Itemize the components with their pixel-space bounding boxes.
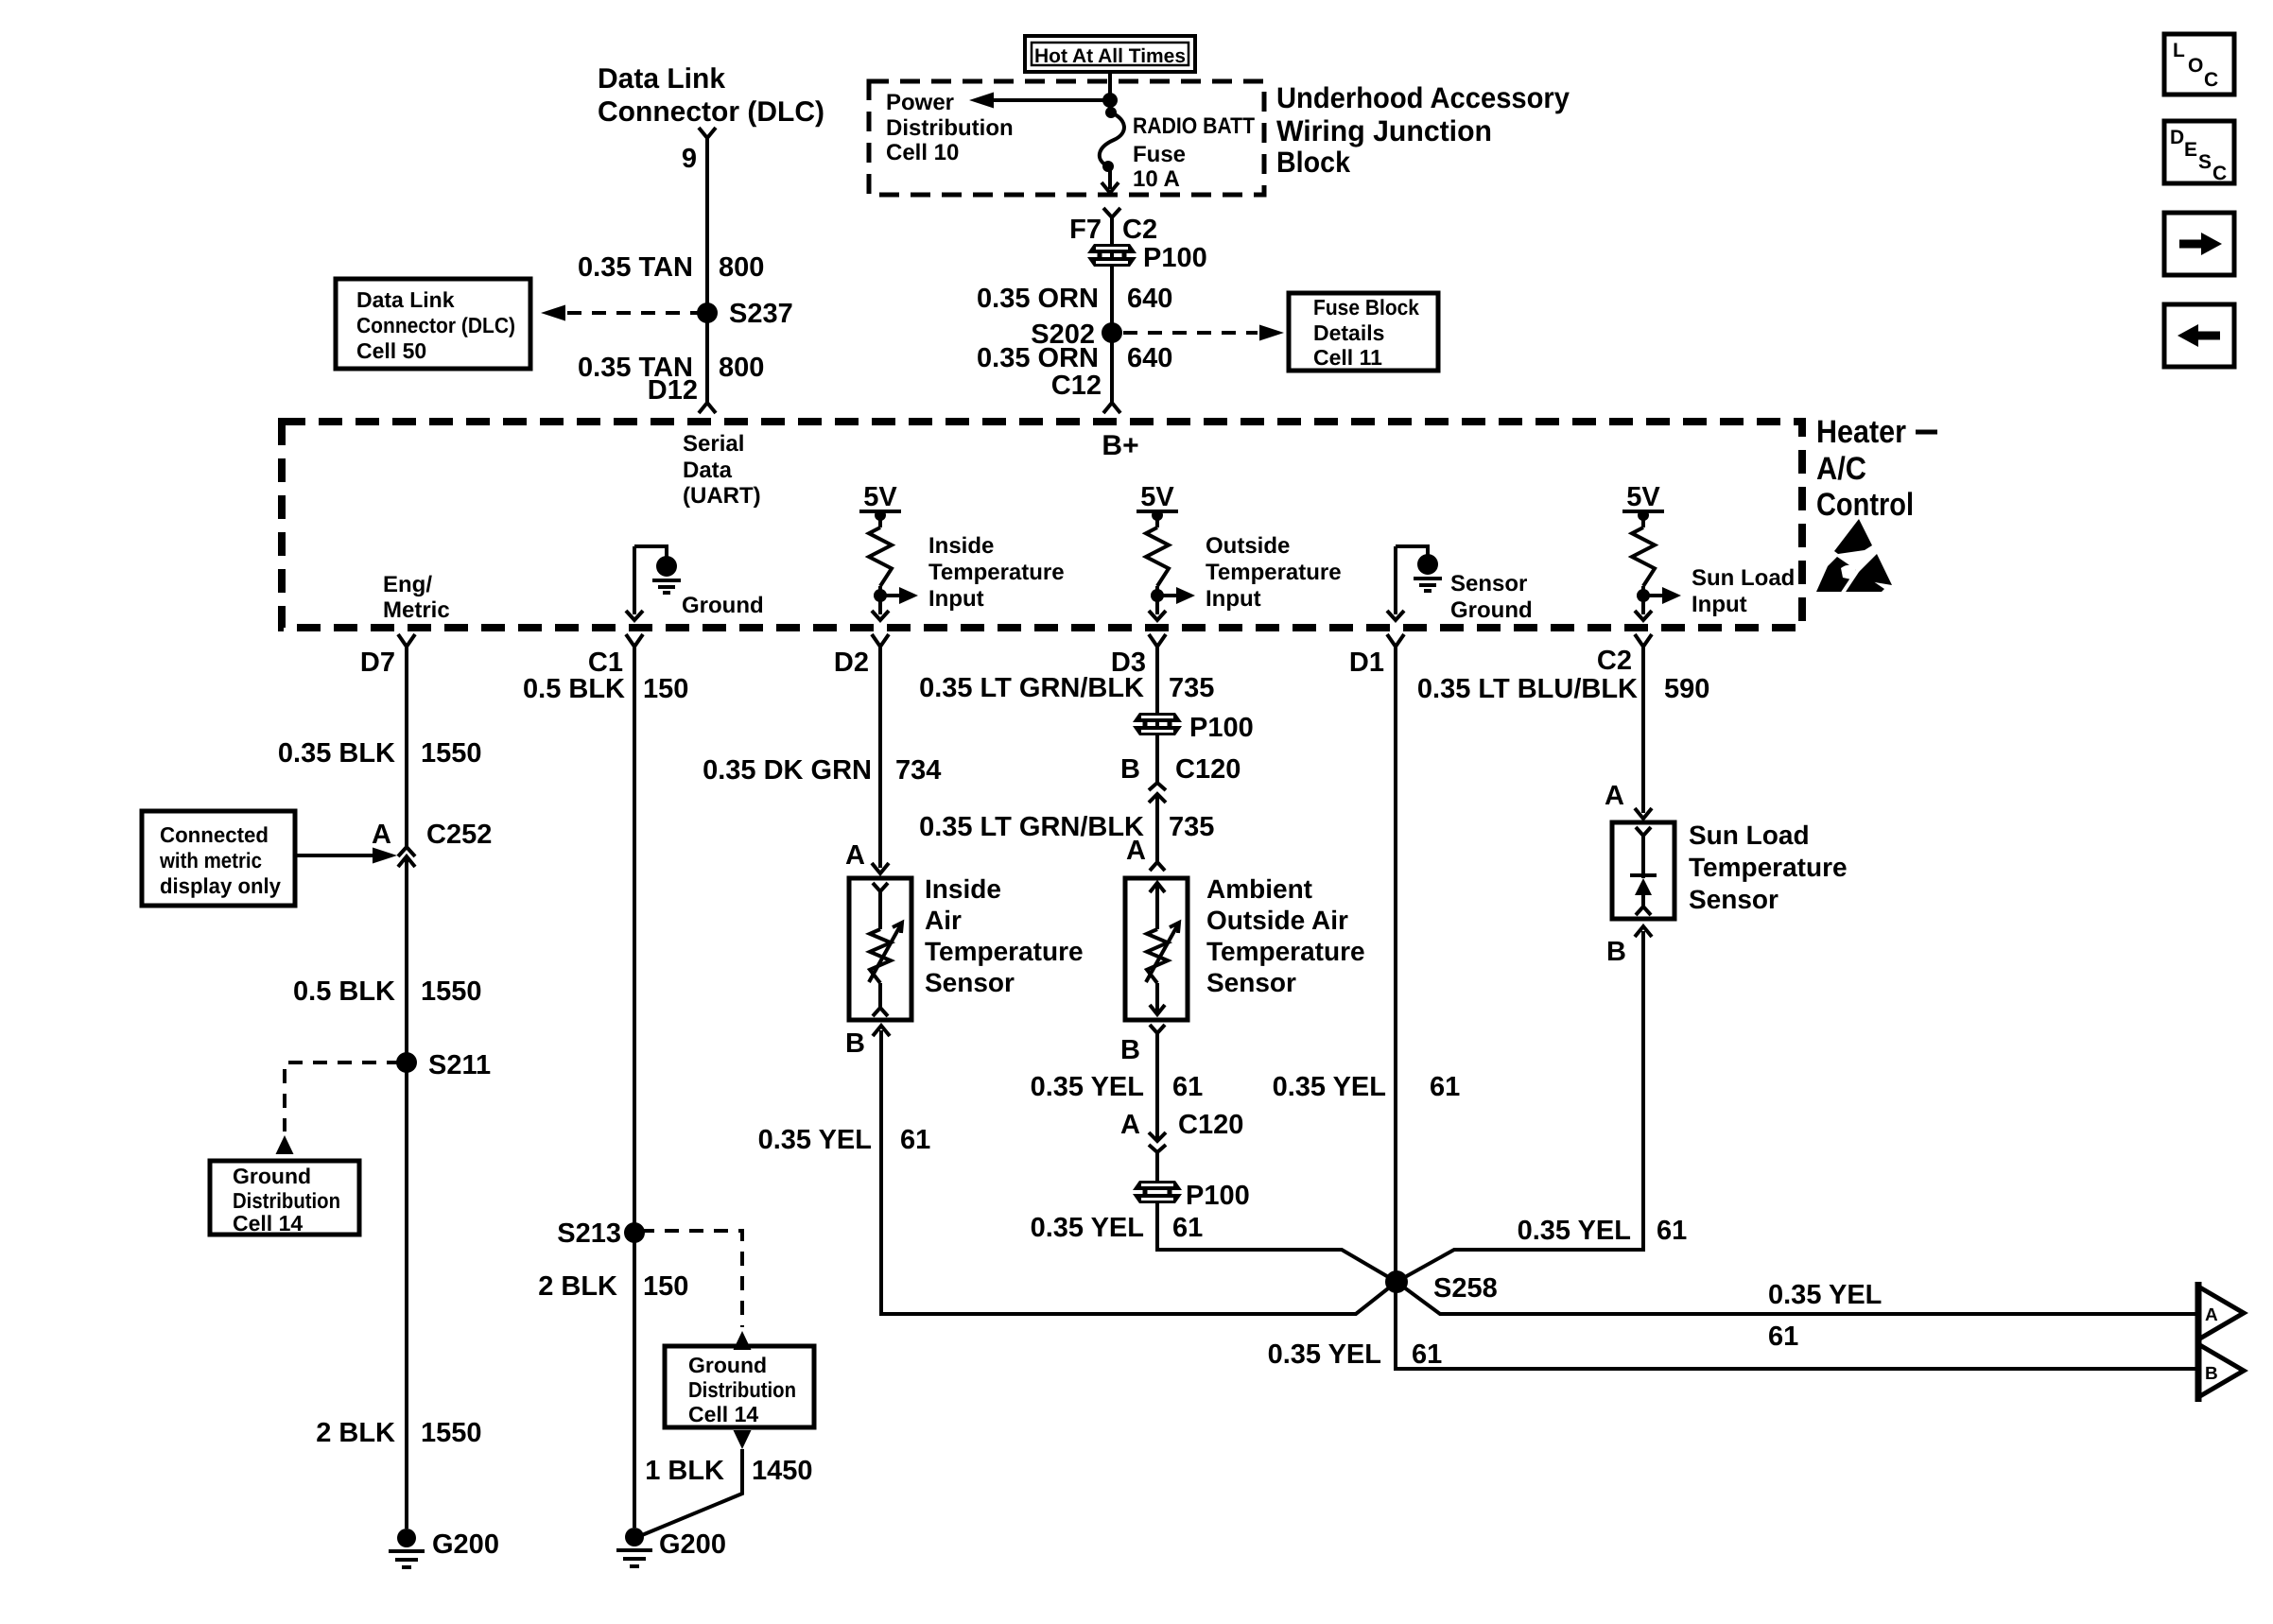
svg-text:Ground: Ground bbox=[233, 1164, 311, 1188]
wire C252 to S211 to G200 bbox=[405, 856, 408, 1529]
svg-text:0.35 TAN: 0.35 TAN bbox=[578, 252, 693, 283]
label 0.35 TAN 800 lower bbox=[578, 353, 764, 383]
svg-text:Temperature: Temperature bbox=[1689, 853, 1848, 882]
svg-text:0.35 LT BLU/BLK: 0.35 LT BLU/BLK bbox=[1417, 674, 1638, 704]
svg-text:0.35 LT GRN/BLK: 0.35 LT GRN/BLK bbox=[919, 812, 1144, 842]
svg-text:0.35 YEL: 0.35 YEL bbox=[1768, 1280, 1882, 1310]
label 0.5 BLK 150 bbox=[523, 674, 688, 704]
dashed reference arrow to Fuse Block Details bbox=[1123, 325, 1284, 341]
arrow outside temperature input bbox=[1157, 587, 1195, 604]
pin A inside sensor bbox=[845, 840, 865, 871]
sensor box Sun Load Temperature Sensor bbox=[1612, 822, 1674, 919]
svg-text:B: B bbox=[1606, 937, 1626, 967]
svg-text:B: B bbox=[845, 1028, 865, 1059]
5V supply at x=1224 bbox=[1136, 482, 1178, 521]
svg-text:(UART): (UART) bbox=[683, 483, 761, 509]
svg-text:2 BLK: 2 BLK bbox=[538, 1271, 617, 1302]
svg-text:B+: B+ bbox=[1102, 430, 1138, 461]
svg-text:5V: 5V bbox=[1140, 482, 1174, 512]
5V supply at x=931 bbox=[859, 482, 901, 521]
svg-text:G200: G200 bbox=[432, 1529, 499, 1560]
ESD sensitivity symbol bbox=[1816, 519, 1892, 593]
svg-text:D2: D2 bbox=[834, 648, 869, 678]
pin D2 bbox=[834, 634, 889, 678]
dashed reference S211 to ground distribution bbox=[285, 1063, 401, 1132]
svg-text:Temperature: Temperature bbox=[925, 937, 1084, 966]
dashed reference S213 to ground distribution bbox=[640, 1231, 742, 1327]
label Inside Temperature Input bbox=[928, 533, 1065, 612]
label 0.35 YEL 61 D1 mid bbox=[1273, 1072, 1461, 1102]
label RADIO BATT Fuse 10 A bbox=[1133, 113, 1255, 192]
svg-text:P100: P100 bbox=[1189, 713, 1254, 743]
connector C252 inline bbox=[398, 847, 415, 867]
svg-text:Temperature: Temperature bbox=[928, 560, 1065, 585]
label 0.35 YEL 61 inside bbox=[758, 1125, 931, 1155]
svg-text:C: C bbox=[2212, 163, 2227, 184]
svg-text:display only: display only bbox=[160, 873, 281, 898]
wire C2 to sun load sensor bbox=[1635, 647, 1652, 819]
node resistor bottom x=1224 bbox=[1151, 586, 1164, 602]
splice S211 bbox=[396, 1050, 491, 1080]
label 0.35 TAN 800 upper bbox=[578, 252, 764, 283]
svg-text:5V: 5V bbox=[1626, 482, 1660, 512]
svg-text:P100: P100 bbox=[1186, 1181, 1250, 1211]
svg-text:10 A: 10 A bbox=[1133, 166, 1180, 192]
svg-text:D1: D1 bbox=[1349, 648, 1384, 678]
arrowhead into ground distribution cell 14 right bbox=[734, 1331, 752, 1350]
svg-text:C12: C12 bbox=[1051, 371, 1102, 401]
svg-text:Inside: Inside bbox=[928, 533, 994, 559]
svg-text:C2: C2 bbox=[1597, 646, 1632, 676]
svg-text:Heater: Heater bbox=[1816, 414, 1906, 450]
svg-text:0.35 YEL: 0.35 YEL bbox=[1518, 1216, 1631, 1246]
label 0.35 YEL 61 ambient bbox=[1031, 1072, 1204, 1102]
node resistor bottom x=1738 bbox=[1637, 586, 1650, 602]
node power junction bbox=[1102, 93, 1118, 108]
svg-text:P100: P100 bbox=[1143, 243, 1207, 273]
svg-text:1 BLK: 1 BLK bbox=[645, 1456, 724, 1486]
wire sensor ground to pin D1 bbox=[1387, 546, 1404, 620]
label Sun Load Input bbox=[1692, 565, 1795, 617]
svg-text:Hot At All Times: Hot At All Times bbox=[1034, 45, 1186, 67]
grommet P100 middle bbox=[1133, 713, 1254, 743]
svg-text:Distribution: Distribution bbox=[233, 1188, 340, 1213]
svg-text:Sensor: Sensor bbox=[925, 968, 1015, 997]
svg-text:Serial: Serial bbox=[683, 431, 744, 457]
svg-text:Cell 11: Cell 11 bbox=[1313, 345, 1382, 370]
svg-text:Input: Input bbox=[928, 586, 984, 612]
arrow to Power Distribution bbox=[969, 93, 1106, 109]
svg-text:Control: Control bbox=[1816, 487, 1914, 523]
svg-text:S213: S213 bbox=[557, 1218, 621, 1249]
icon LOC bbox=[2164, 34, 2234, 95]
svg-text:0.35 YEL: 0.35 YEL bbox=[1268, 1339, 1381, 1370]
svg-text:0.35 ORN: 0.35 ORN bbox=[977, 284, 1099, 314]
svg-text:0.35 BLK: 0.35 BLK bbox=[278, 738, 395, 769]
arrow inside temperature input bbox=[880, 587, 918, 604]
wire ground distribution to G200 right bbox=[642, 1449, 742, 1535]
connector C120 upper bbox=[1149, 783, 1166, 803]
node resistor bottom x=931 bbox=[874, 586, 887, 602]
svg-text:5V: 5V bbox=[863, 482, 897, 512]
label D2 wire 0.35 DK GRN 734 bbox=[703, 755, 941, 786]
svg-text:640: 640 bbox=[1127, 343, 1172, 373]
label 0.35 YEL 61 output A bbox=[1768, 1280, 1882, 1352]
box Fuse Block Details Cell 11 bbox=[1289, 293, 1438, 371]
svg-text:D7: D7 bbox=[360, 648, 395, 678]
svg-text:Fuse: Fuse bbox=[1133, 142, 1186, 167]
label A C252 bbox=[372, 820, 492, 850]
svg-text:0.35 YEL: 0.35 YEL bbox=[1273, 1072, 1386, 1102]
ambient sensor thermistor bbox=[1146, 923, 1179, 983]
svg-text:Underhood Accessory: Underhood Accessory bbox=[1276, 81, 1570, 114]
grommet P100 top bbox=[1087, 243, 1207, 273]
label 2 BLK 150 bbox=[538, 1271, 688, 1302]
pin D3 bbox=[1111, 634, 1166, 678]
svg-text:61: 61 bbox=[1430, 1072, 1460, 1102]
arrowhead out of ground distribution cell 14 right bbox=[734, 1430, 752, 1449]
label 0.35 LT BLU/BLK 590 bbox=[1417, 674, 1709, 704]
fuse RADIO BATT 10 A bbox=[1100, 107, 1124, 193]
pin 9 connector bbox=[699, 128, 716, 138]
svg-text:S: S bbox=[2198, 151, 2212, 173]
svg-text:0.35 YEL: 0.35 YEL bbox=[1031, 1072, 1144, 1102]
net label B+ bbox=[1102, 430, 1138, 461]
svg-text:61: 61 bbox=[1172, 1213, 1203, 1243]
label A C120 lower bbox=[1120, 1110, 1243, 1140]
icon DESC bbox=[2164, 121, 2234, 184]
output arrow A bbox=[2198, 1282, 2244, 1344]
svg-text:1450: 1450 bbox=[752, 1456, 813, 1486]
internal sensor ground symbol near D1 bbox=[1396, 546, 1442, 591]
svg-text:0.5 BLK: 0.5 BLK bbox=[523, 674, 625, 704]
svg-text:0.5 BLK: 0.5 BLK bbox=[293, 976, 395, 1007]
svg-text:S237: S237 bbox=[729, 299, 793, 329]
svg-text:C120: C120 bbox=[1178, 1110, 1243, 1140]
wire ambient B to C120 lower bbox=[1155, 1033, 1159, 1141]
svg-text:Sun Load: Sun Load bbox=[1689, 821, 1810, 850]
pin D12 label bbox=[648, 375, 698, 406]
ground G200 left bbox=[389, 1529, 499, 1567]
svg-text:B: B bbox=[1120, 754, 1140, 785]
svg-text:Sun Load: Sun Load bbox=[1692, 565, 1795, 591]
wire D1 through S258 to output B bbox=[1396, 647, 2198, 1369]
label B C120 upper bbox=[1120, 754, 1241, 785]
wire D2 to inside sensor bbox=[872, 647, 889, 873]
resistor at x=1738 bbox=[1632, 515, 1655, 586]
arrow sun load input bbox=[1643, 587, 1681, 604]
pin C1 bbox=[588, 634, 643, 678]
svg-text:Data: Data bbox=[683, 458, 733, 483]
title Heater A/C Control bbox=[1816, 414, 1937, 523]
pin A sun load sensor bbox=[1605, 781, 1624, 811]
svg-text:1550: 1550 bbox=[421, 738, 482, 769]
svg-text:A/C: A/C bbox=[1816, 451, 1866, 487]
svg-text:Sensor: Sensor bbox=[1689, 885, 1778, 914]
pin B ambient sensor bbox=[1120, 1025, 1165, 1065]
label Serial Data (UART) bbox=[683, 431, 761, 509]
pin A ambient sensor bbox=[1126, 836, 1165, 871]
label Ground bbox=[682, 593, 764, 618]
svg-text:Fuse Block: Fuse Block bbox=[1313, 295, 1419, 320]
pin F7 C2 connector bbox=[1103, 208, 1120, 217]
wire resistor to pin x=931 bbox=[872, 596, 889, 620]
splice S202 bbox=[1031, 320, 1122, 350]
splice S237 bbox=[697, 299, 793, 329]
svg-text:Metric: Metric bbox=[383, 597, 450, 623]
label 0.5 BLK 1550 bbox=[293, 976, 482, 1007]
label 1 BLK 1450 bbox=[645, 1456, 812, 1486]
connector C120 lower bbox=[1149, 1132, 1166, 1152]
svg-text:Distribution: Distribution bbox=[688, 1377, 796, 1402]
svg-text:L: L bbox=[2173, 40, 2185, 61]
wire DLC serial data vertical bbox=[705, 138, 709, 403]
ground G200 right bbox=[616, 1528, 726, 1566]
svg-text:9: 9 bbox=[682, 144, 697, 174]
wire fuse output to C12 bbox=[1110, 217, 1114, 403]
svg-text:150: 150 bbox=[643, 1271, 688, 1302]
svg-text:2 BLK: 2 BLK bbox=[316, 1418, 395, 1448]
box Ground Distribution Cell 14 left bbox=[210, 1161, 359, 1235]
svg-text:G200: G200 bbox=[659, 1529, 726, 1560]
svg-text:Ground: Ground bbox=[1450, 597, 1533, 623]
wire C1 to G200 bbox=[633, 647, 636, 1528]
svg-text:F7: F7 bbox=[1069, 215, 1102, 245]
svg-text:C252: C252 bbox=[426, 820, 492, 850]
svg-text:Temperature: Temperature bbox=[1206, 560, 1342, 585]
svg-text:61: 61 bbox=[1412, 1339, 1442, 1370]
svg-text:Wiring Junction: Wiring Junction bbox=[1276, 114, 1492, 147]
label Power Distribution Cell 10 bbox=[886, 90, 1014, 165]
svg-text:0.35 LT GRN/BLK: 0.35 LT GRN/BLK bbox=[919, 673, 1144, 703]
svg-text:0.35 DK GRN: 0.35 DK GRN bbox=[703, 755, 872, 786]
box Ground Distribution Cell 14 right bbox=[665, 1346, 814, 1427]
wire ambient to S258 bbox=[1157, 1203, 1397, 1282]
title Data Link Connector (DLC) bbox=[598, 63, 824, 128]
label Sun Load Temperature Sensor bbox=[1689, 821, 1848, 914]
module Heater A/C Control dashed box bbox=[282, 422, 1802, 628]
svg-text:Cell 10: Cell 10 bbox=[886, 140, 959, 165]
pin D1 bbox=[1349, 634, 1404, 678]
wire resistor to pin x=1738 bbox=[1635, 596, 1652, 620]
svg-text:Ambient: Ambient bbox=[1206, 874, 1312, 904]
wire from Hot At All Times to fuse bbox=[1108, 72, 1112, 109]
svg-text:Eng/: Eng/ bbox=[383, 572, 432, 597]
label 0.35 LT GRN/BLK 735 lower bbox=[919, 812, 1214, 842]
ambient sensor internal arrows bbox=[1150, 883, 1165, 1014]
svg-text:E: E bbox=[2184, 139, 2197, 161]
splice S258 bbox=[1385, 1270, 1498, 1304]
svg-text:Cell 50: Cell 50 bbox=[356, 338, 426, 363]
svg-text:734: 734 bbox=[895, 755, 941, 786]
svg-text:D: D bbox=[2170, 127, 2184, 148]
box Hot At All Times bbox=[1025, 36, 1195, 72]
svg-text:A: A bbox=[2205, 1305, 2218, 1325]
splice S213 bbox=[557, 1218, 645, 1249]
svg-text:800: 800 bbox=[719, 353, 764, 383]
svg-text:Connected: Connected bbox=[160, 822, 269, 847]
svg-text:Data Link: Data Link bbox=[598, 63, 725, 95]
inside sensor internal pin top bbox=[873, 883, 888, 929]
dashed reference arrow to DLC cell 50 bbox=[541, 305, 702, 321]
wire C120 to P100 lower bbox=[1155, 1152, 1159, 1181]
wire D3 to C120 bbox=[1155, 647, 1159, 805]
svg-text:1550: 1550 bbox=[421, 1418, 482, 1448]
svg-text:61: 61 bbox=[1657, 1216, 1687, 1246]
svg-text:Ground: Ground bbox=[682, 593, 764, 618]
svg-text:Ground: Ground bbox=[688, 1353, 767, 1377]
label 0.35 YEL 61 D1 lower bbox=[1268, 1339, 1443, 1370]
label Eng/Metric bbox=[383, 572, 450, 623]
output arrow B bbox=[2198, 1339, 2244, 1402]
label 0.35 ORN 640 lower bbox=[977, 343, 1172, 373]
label 0.35 LT GRN/BLK 735 upper bbox=[919, 673, 1214, 703]
svg-text:Distribution: Distribution bbox=[886, 115, 1014, 141]
svg-text:A: A bbox=[1605, 781, 1624, 811]
label F7 C2 bbox=[1069, 215, 1157, 245]
svg-text:61: 61 bbox=[1768, 1322, 1798, 1352]
svg-text:C: C bbox=[2204, 69, 2218, 91]
svg-text:A: A bbox=[1126, 836, 1146, 866]
svg-text:Connector (DLC): Connector (DLC) bbox=[356, 313, 515, 337]
svg-text:Input: Input bbox=[1692, 592, 1747, 617]
svg-text:S258: S258 bbox=[1433, 1273, 1498, 1304]
label 0.35 BLK 1550 bbox=[278, 738, 482, 769]
label 0.35 ORN 640 upper bbox=[977, 284, 1172, 314]
label Outside Temperature Input bbox=[1206, 533, 1342, 612]
sun load sensor photodiode bbox=[1630, 827, 1657, 915]
grommet P100 lower bbox=[1133, 1181, 1250, 1211]
svg-text:Data Link: Data Link bbox=[356, 287, 455, 312]
label 0.35 YEL 61 sun bbox=[1518, 1216, 1688, 1246]
svg-text:61: 61 bbox=[1172, 1072, 1203, 1102]
svg-text:C120: C120 bbox=[1175, 754, 1241, 785]
resistor at x=1224 bbox=[1146, 515, 1169, 586]
svg-text:A: A bbox=[372, 820, 391, 850]
svg-text:O: O bbox=[2188, 55, 2203, 77]
svg-text:C2: C2 bbox=[1122, 215, 1157, 245]
svg-text:Cell 14: Cell 14 bbox=[233, 1211, 303, 1235]
label 0.35 YEL 61 below P100 bbox=[1031, 1213, 1204, 1243]
icon arrow right bbox=[2164, 213, 2234, 275]
pin D12 connector bbox=[699, 403, 716, 413]
svg-text:150: 150 bbox=[643, 674, 688, 704]
wire sun load B to S258 bbox=[1397, 926, 1652, 1282]
wire resistor to pin x=1224 bbox=[1149, 596, 1166, 620]
svg-text:Sensor: Sensor bbox=[1206, 968, 1296, 997]
title Underhood Accessory Wiring Junction Block bbox=[1276, 81, 1570, 179]
svg-text:Inside: Inside bbox=[925, 874, 1001, 904]
pin C2 bbox=[1597, 634, 1652, 676]
svg-text:RADIO BATT: RADIO BATT bbox=[1133, 113, 1255, 139]
svg-text:D12: D12 bbox=[648, 375, 698, 406]
svg-text:Cell 14: Cell 14 bbox=[688, 1402, 758, 1426]
label 2 BLK 1550 bbox=[316, 1418, 481, 1448]
svg-text:0.35 YEL: 0.35 YEL bbox=[758, 1125, 872, 1155]
svg-text:Power: Power bbox=[886, 90, 954, 115]
icon arrow left bbox=[2164, 304, 2234, 367]
inside sensor thermistor bbox=[869, 923, 902, 1016]
arrow from metric note to C252 bbox=[295, 848, 397, 864]
svg-text:Temperature: Temperature bbox=[1206, 937, 1365, 966]
svg-text:B: B bbox=[2205, 1364, 2218, 1384]
svg-text:640: 640 bbox=[1127, 284, 1172, 314]
label Inside Air Temperature Sensor bbox=[925, 874, 1084, 997]
wire C120 to ambient sensor bbox=[1155, 805, 1159, 862]
svg-text:61: 61 bbox=[900, 1125, 930, 1155]
svg-text:735: 735 bbox=[1169, 673, 1214, 703]
label Sensor Ground bbox=[1450, 571, 1533, 623]
svg-text:Details: Details bbox=[1313, 320, 1384, 345]
svg-text:1550: 1550 bbox=[421, 976, 482, 1007]
svg-text:0.35 ORN: 0.35 ORN bbox=[977, 343, 1099, 373]
dashed box Underhood Accessory Wiring Junction Block bbox=[869, 81, 1264, 195]
svg-text:Outside: Outside bbox=[1206, 533, 1290, 559]
arrowhead to ground distribution cell 14 left bbox=[276, 1135, 294, 1154]
wire internal ground to pin C1 bbox=[626, 546, 643, 620]
svg-text:Sensor: Sensor bbox=[1450, 571, 1527, 596]
pin C12 label bbox=[1051, 371, 1102, 401]
5V supply at x=1738 bbox=[1622, 482, 1664, 521]
box Data Link Connector (DLC) Cell 50 bbox=[336, 279, 530, 369]
svg-text:Air: Air bbox=[925, 906, 962, 935]
pin B sun load sensor bbox=[1606, 937, 1626, 967]
pin C12 connector bbox=[1103, 403, 1120, 413]
internal ground symbol near C1 bbox=[634, 546, 681, 593]
resistor at x=931 bbox=[869, 515, 892, 586]
pin D7 bbox=[360, 634, 415, 678]
svg-text:Connector (DLC): Connector (DLC) bbox=[598, 96, 824, 128]
wire inside sensor B to S258 bbox=[873, 1026, 1397, 1314]
sensor box Inside Air Temperature Sensor bbox=[849, 878, 911, 1020]
svg-text:0.35 YEL: 0.35 YEL bbox=[1031, 1213, 1144, 1243]
wire S258 to output A bbox=[1397, 1282, 2198, 1314]
svg-text:Outside Air: Outside Air bbox=[1206, 906, 1348, 935]
svg-text:800: 800 bbox=[719, 252, 764, 283]
svg-text:Input: Input bbox=[1206, 586, 1261, 612]
label Ambient Outside Air Temperature Sensor bbox=[1206, 874, 1365, 997]
svg-text:A: A bbox=[845, 840, 865, 871]
sensor box Ambient Outside Air Temperature Sensor bbox=[1125, 878, 1188, 1020]
wire D7 to C252 bbox=[405, 647, 408, 847]
svg-text:B: B bbox=[1120, 1035, 1140, 1065]
svg-text:Block: Block bbox=[1276, 146, 1351, 179]
pin 9 label bbox=[682, 144, 697, 174]
pin B inside sensor bbox=[845, 1028, 865, 1059]
svg-text:735: 735 bbox=[1169, 812, 1214, 842]
box Connected with metric display only bbox=[142, 811, 295, 906]
svg-text:A: A bbox=[1120, 1110, 1140, 1140]
svg-text:S211: S211 bbox=[428, 1050, 491, 1080]
svg-text:with metric: with metric bbox=[159, 848, 262, 872]
svg-text:590: 590 bbox=[1664, 674, 1709, 704]
